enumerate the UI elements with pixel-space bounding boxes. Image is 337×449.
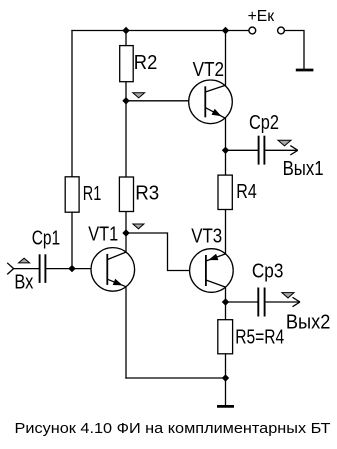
svg-text:Рисунок 4.10 ФИ на комплимента: Рисунок 4.10 ФИ на комплиментарных БТ bbox=[15, 420, 331, 437]
svg-text:VT3: VT3 bbox=[191, 226, 222, 248]
wire: out1 node to Cp2 bbox=[226, 149, 258, 151]
svg-text:R1: R1 bbox=[83, 183, 102, 205]
svg-text:Ср2: Ср2 bbox=[249, 112, 279, 134]
signal marker (up) at input bbox=[19, 258, 30, 263]
wire: R3 bottom to node A bbox=[125, 212, 127, 234]
svg-text:VT2: VT2 bbox=[193, 59, 225, 81]
wire: out2 node to Cp3 bbox=[226, 301, 258, 303]
wire: VT3 base jog from node A bbox=[126, 233, 206, 271]
junction node: rail / R2 bbox=[122, 27, 129, 34]
junction node: Cp1 / R1 / VT1 base bbox=[68, 265, 75, 272]
wire: base node to R3 top bbox=[125, 101, 127, 177]
svg-text:Вх: Вх bbox=[14, 272, 33, 294]
wire: Cp1 to base node bbox=[46, 268, 72, 270]
wire: R2 bottom to base node bbox=[125, 82, 127, 101]
wire: R1 bottom to input node bbox=[71, 212, 73, 269]
junction node A: R3 / VT1 collector / VT3 base bbox=[122, 229, 129, 236]
wire: out2 node to R5 top bbox=[225, 302, 227, 320]
wire: VT3 collector to out2 node bbox=[225, 287, 227, 302]
transistor VT3 (PNP) bbox=[190, 249, 234, 293]
svg-text:R5=R4: R5=R4 bbox=[235, 326, 284, 348]
svg-text:Ср3: Ср3 bbox=[252, 261, 284, 283]
wire: VT1 base bbox=[72, 268, 107, 270]
wire: rail node to R2 top bbox=[125, 31, 127, 47]
junction node: VT2 emitter / R4 / Cp2 bbox=[222, 147, 229, 154]
svg-text:R3: R3 bbox=[135, 183, 159, 205]
terminal pin +Ek right bbox=[278, 27, 285, 34]
wire: out1 node to R4 top bbox=[225, 150, 227, 175]
wire: R4 bottom to VT3 emitter bbox=[225, 210, 227, 254]
resistor R2 bbox=[120, 46, 134, 82]
svg-text:Вых2: Вых2 bbox=[286, 312, 331, 334]
input arrow Vin bbox=[7, 263, 13, 275]
terminal pin +Ek left bbox=[249, 27, 256, 34]
wire: left column, rail to R1 top bbox=[71, 31, 73, 178]
transistor VT2 (NPN) bbox=[189, 80, 233, 124]
svg-text:R2: R2 bbox=[134, 52, 158, 74]
signal marker (down) at output 2 bbox=[282, 293, 294, 298]
junction node: VT3 collector / R5 / Cp3 bbox=[222, 298, 229, 305]
wire: input lead to Cp1 bbox=[14, 268, 39, 270]
signal marker (down) at output 1 bbox=[278, 140, 291, 146]
wire: R5 bottom to ground node bbox=[225, 354, 227, 378]
svg-text:VT1: VT1 bbox=[88, 224, 118, 246]
capacitor C1 (Cp1) bbox=[40, 254, 46, 283]
signal marker (down) at node A bbox=[133, 224, 144, 229]
junction node: R2 / VT2 base bbox=[122, 97, 129, 104]
wire: ground node to bottom ground bbox=[225, 378, 227, 405]
wire: VT2 collector lead bbox=[225, 31, 227, 86]
svg-text:Вых1: Вых1 bbox=[283, 158, 324, 180]
wire: VT2 emitter to out1 node bbox=[225, 118, 227, 150]
ground (bottom) bbox=[217, 405, 234, 408]
wire: +Ek top rail bbox=[72, 30, 249, 32]
wire: VT1 collector lead bbox=[125, 233, 127, 252]
junction node: bottom rail / ground bbox=[222, 374, 229, 381]
svg-text:R4: R4 bbox=[236, 181, 256, 203]
transistor VT1 (NPN) bbox=[91, 248, 135, 292]
output arrow Out2 bbox=[266, 297, 300, 306]
signal marker (down) at VT2 base node bbox=[133, 93, 145, 98]
ground (top right) bbox=[296, 69, 314, 72]
wire: VT2 base bbox=[126, 100, 205, 102]
resistor R5 bbox=[218, 320, 233, 354]
output arrow Out1 bbox=[265, 146, 297, 155]
wire: VT1 emitter lead down bbox=[125, 287, 127, 378]
svg-text:+Ек: +Ек bbox=[248, 8, 275, 25]
svg-text:Ср1: Ср1 bbox=[32, 228, 61, 250]
resistor R1 bbox=[65, 177, 79, 212]
wire: bottom rail bbox=[126, 377, 226, 379]
capacitor C2 (Cp2) bbox=[259, 136, 265, 165]
capacitor C3 (Cp3) bbox=[258, 288, 264, 317]
resistor R3 bbox=[119, 177, 133, 212]
junction node: rail / VT2 collector bbox=[222, 27, 229, 34]
resistor R4 bbox=[218, 175, 232, 209]
wire: +Ek terminal to top ground bbox=[284, 31, 304, 70]
